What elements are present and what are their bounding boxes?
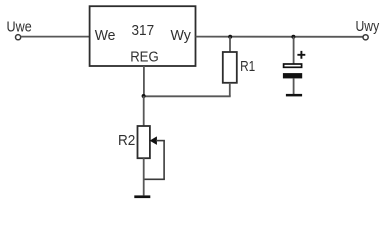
wire output [196, 36, 364, 38]
svg-text:R1: R1 [240, 58, 255, 75]
capacitor C1 bottom plate [283, 73, 302, 78]
op-amp U1 regulator 317 box [90, 6, 196, 66]
node capacitor junction [291, 35, 295, 39]
wire R2 bottom lead [143, 158, 145, 195]
svg-text:We: We [95, 28, 116, 44]
potentiometer R2 wiper arrow [150, 137, 156, 144]
terminal Uwe [16, 35, 21, 40]
node adjust junction [142, 94, 146, 98]
svg-text:Uwe: Uwe [7, 20, 32, 36]
terminal Uwy [363, 35, 368, 40]
node R1 top junction [228, 35, 232, 39]
resistor R1 [223, 52, 237, 83]
svg-text:Wy: Wy [171, 28, 192, 44]
polarity label + [297, 51, 305, 59]
wire input [21, 36, 89, 38]
wire adjust horizontal [144, 95, 231, 97]
svg-text:R2: R2 [118, 132, 135, 149]
capacitor C1 top plate [284, 64, 302, 67]
svg-text:317: 317 [132, 23, 155, 39]
wire adjust from regulator [143, 66, 145, 96]
wire capacitor bottom lead [293, 78, 295, 94]
wire R1 top lead [229, 37, 231, 52]
wire wiper horizontal [156, 140, 165, 142]
wire capacitor top lead [293, 37, 295, 64]
ground capacitor [286, 94, 302, 97]
wire to R2 [143, 96, 145, 126]
svg-text:Uwy: Uwy [356, 19, 380, 35]
wire wiper vertical [163, 141, 165, 180]
svg-text:REG: REG [130, 49, 159, 65]
ground R2 [134, 195, 150, 198]
wire R1 bottom lead [229, 83, 231, 97]
wire wiper return [144, 178, 165, 180]
potentiometer R2 body [138, 126, 150, 158]
